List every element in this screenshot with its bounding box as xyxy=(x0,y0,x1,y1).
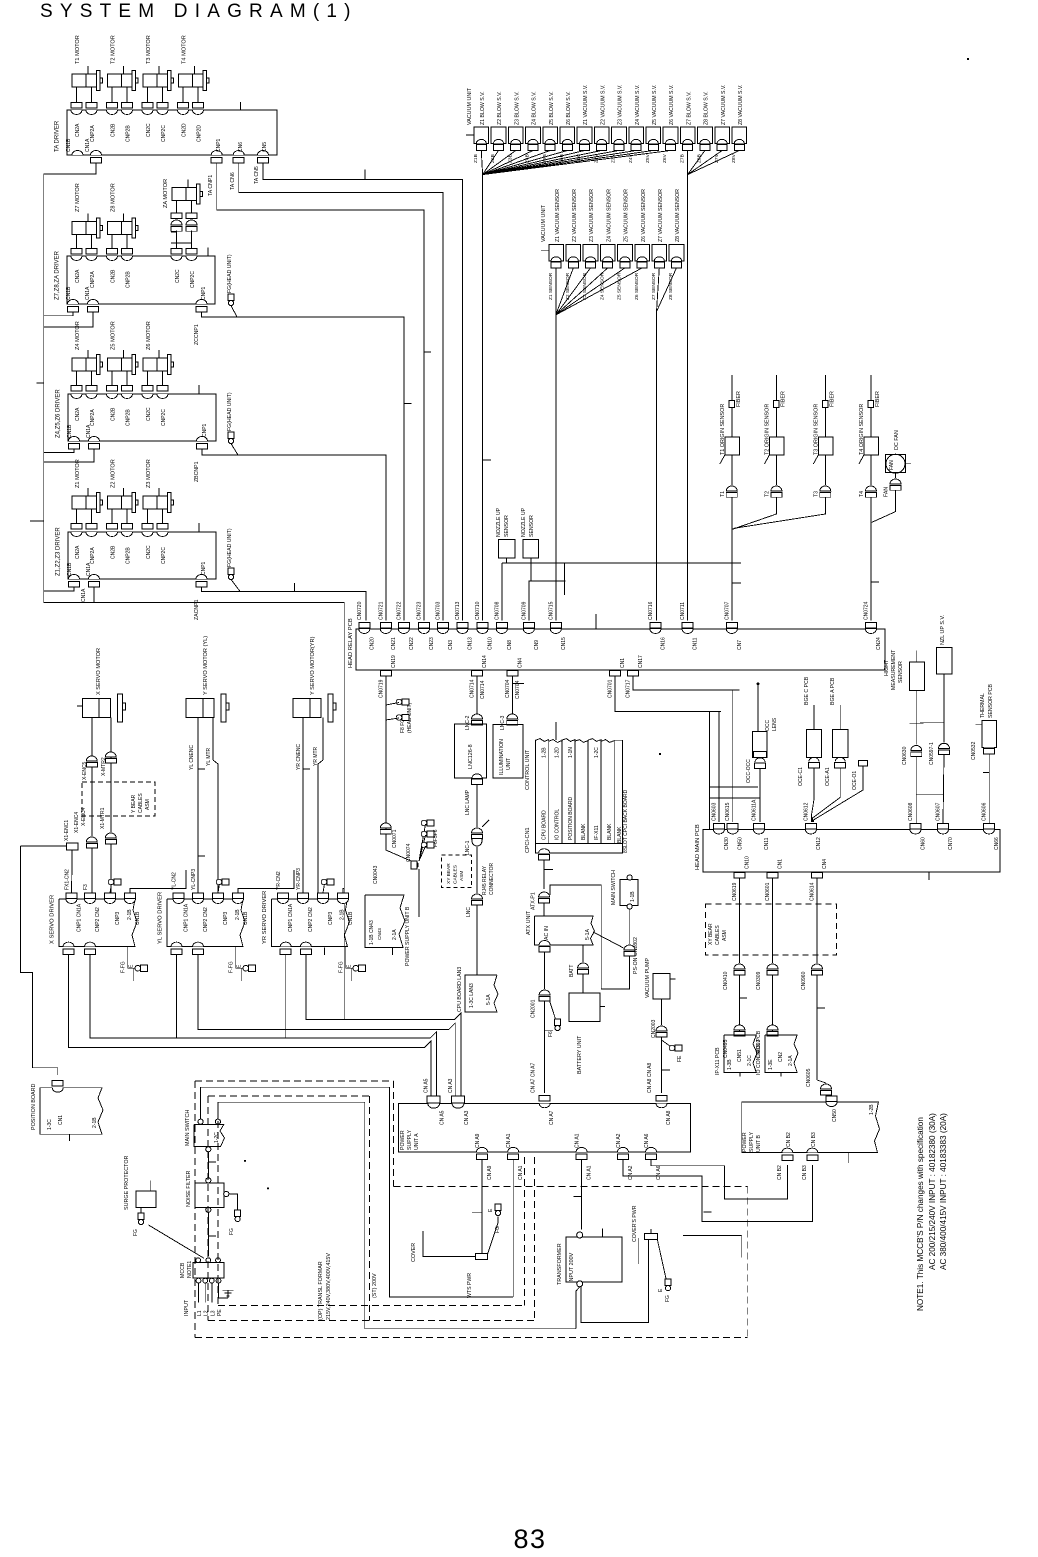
svg-text:CN0714: CN0714 xyxy=(470,679,476,698)
svg-text:CN2C: CN2C xyxy=(146,123,152,137)
stub on control unit top xyxy=(555,722,557,740)
svg-text:CN1A: CN1A xyxy=(85,138,91,152)
connector output on YL SERVO DRIVER bottom xyxy=(171,942,182,947)
svg-text:CNP1: CNP1 xyxy=(216,138,222,152)
connector CN0719 on HEAD RELAY PCB bottom xyxy=(380,670,391,675)
svg-text:CN0720: CN0720 xyxy=(357,601,363,620)
connector CN2D/CNP2D on TA DRIVER xyxy=(178,110,189,115)
svg-text:1-2C: 1-2C xyxy=(214,1132,220,1143)
connector CN0717 on HEAD RELAY PCB bottom xyxy=(628,670,639,675)
svg-text:CN20: CN20 xyxy=(369,637,375,650)
svg-text:MCCB: MCCB xyxy=(180,1262,186,1278)
svg-text:VACUUM UNIT: VACUUM UNIT xyxy=(467,87,473,125)
svg-text:CN0704: CN0704 xyxy=(505,679,511,698)
wire CN0714 to LNC-2 xyxy=(476,676,478,716)
svg-text:YL MTR: YL MTR xyxy=(206,747,212,766)
board slot 8SLOT CPCI BACK BOARD xyxy=(614,740,622,843)
connector CN A6 on PSU-A bottom xyxy=(646,1147,657,1152)
connector TA CNP1 xyxy=(211,151,222,155)
connector CN A2 on PSU-A bottom xyxy=(617,1147,628,1152)
wire bundle valve row cells 1-12 to CN0710 xyxy=(481,151,482,175)
wires Z78A driver to left bus xyxy=(44,312,73,316)
connector output on YR SERVO DRIVER bottom xyxy=(300,942,311,947)
connector CN0723 on HEAD RELAY PCB top xyxy=(419,623,430,629)
junction tick on CN0710 bundle wire xyxy=(483,459,492,461)
connector YR-CNP3 on YR SERVO DRIVER top xyxy=(298,893,309,899)
svg-text:CN A1: CN A1 xyxy=(506,1133,512,1148)
svg-text:CN0615: CN0615 xyxy=(725,802,731,821)
svg-text:1-3E: 1-3E xyxy=(768,1059,774,1070)
connector CN2B pair on Z7,Z8,ZA DRIVER xyxy=(107,256,118,261)
svg-text:CN13: CN13 xyxy=(468,637,474,650)
stray dots bottom area xyxy=(244,1160,246,1162)
svg-text:CN1: CN1 xyxy=(58,1115,64,1125)
svg-text:Z7 VACUUM S.V.: Z7 VACUUM S.V. xyxy=(721,85,727,125)
left vertical bus wire xyxy=(43,174,45,602)
junction tick on ZACNP1 wire xyxy=(294,583,296,592)
connector CN0714 on HEAD RELAY PCB bottom xyxy=(472,670,483,675)
connector ATX AC-IN bottom xyxy=(539,941,550,946)
svg-text:MAIN SWITCH: MAIN SWITCH xyxy=(185,1110,191,1146)
svg-text:2-1C: 2-1C xyxy=(747,1055,753,1066)
svg-text:CN2D: CN2D xyxy=(182,123,188,137)
stub on TA DRIVER top xyxy=(240,102,242,110)
stub below PSU-B small xyxy=(392,947,394,955)
svg-text:RJ45 RELAY: RJ45 RELAY xyxy=(482,865,488,895)
svg-text:IO CONTROL: IO CONTROL xyxy=(555,809,561,840)
svg-text:CNP2A: CNP2A xyxy=(90,271,96,288)
svg-text:Z4,Z5,Z6 DRIVER: Z4,Z5,Z6 DRIVER xyxy=(56,389,62,438)
connector ZCCNP1 xyxy=(196,300,207,305)
wire ZACNP1 to CN0720 xyxy=(202,587,367,621)
svg-text:Z7 SENSOR: Z7 SENSOR xyxy=(651,272,657,300)
wire CN0601 chain xyxy=(772,878,774,963)
svg-text:F-FG: F-FG xyxy=(339,961,345,973)
svg-text:XY BEAR: XY BEAR xyxy=(708,923,714,945)
svg-text:CN0605: CN0605 xyxy=(806,1068,812,1087)
power supply POWER SUPPLY UNIT A xyxy=(398,1103,690,1152)
svg-text:CN0597-1: CN0597-1 xyxy=(929,742,935,765)
svg-text:HEAD MAIN PCB: HEAD MAIN PCB xyxy=(695,824,701,870)
svg-text:FG: FG xyxy=(229,1228,235,1235)
svg-text:LNC-2: LNC-2 xyxy=(465,715,471,730)
stub on Z123 driver top xyxy=(198,523,200,532)
svg-text:CN0722: CN0722 xyxy=(396,601,402,620)
driver YL SERVO DRIVER xyxy=(167,899,245,947)
connector CN0603 on HEAD MAIN PCB top xyxy=(713,824,724,830)
svg-text:CN30: CN30 xyxy=(724,837,730,850)
wire transformer secondary loop xyxy=(581,1240,649,1323)
board slot BLANK xyxy=(601,740,614,844)
svg-text:CN0701: CN0701 xyxy=(608,679,614,698)
svg-text:CN A7 CN A7: CN A7 CN A7 xyxy=(531,1062,537,1093)
tick on vacuum pump wire xyxy=(662,1069,671,1071)
connector CN A7 arc on PSU-A top xyxy=(539,1103,550,1108)
svg-text:2-1B: 2-1B xyxy=(339,909,345,920)
connector CN0612 on HEAD MAIN PCB top xyxy=(805,824,816,830)
wire T2 joins T1 bundle xyxy=(733,506,777,529)
svg-text:CN1B: CN1B xyxy=(67,424,73,438)
svg-text:CN22: CN22 xyxy=(409,637,415,650)
svg-text:CN2C: CN2C xyxy=(146,545,152,559)
svg-text:CN10: CN10 xyxy=(744,856,750,869)
power supply POWER SUPPLY UNIT B xyxy=(742,1102,880,1153)
cable duct XY BEAR CABLES ASM small (dashed) xyxy=(442,855,472,888)
svg-text:X1-MTR1: X1-MTR1 xyxy=(100,807,106,829)
svg-text:T3 MOTOR: T3 MOTOR xyxy=(146,35,152,64)
wire CN A6 to CN B2 xyxy=(651,1160,787,1199)
wire T1 chain down to CN0707 xyxy=(731,506,733,621)
svg-text:CN1A: CN1A xyxy=(86,562,92,576)
svg-text:1-1B CN43: 1-1B CN43 xyxy=(369,920,375,945)
svg-text:AC 380/400/415V INPUT : 401833: AC 380/400/415V INPUT : 40183383 (20A) xyxy=(939,1113,948,1270)
stub below head main pcb right xyxy=(928,872,930,880)
svg-text:2-1B: 2-1B xyxy=(127,909,133,920)
wire CN0701 to CN0603 xyxy=(615,676,721,711)
svg-text:CABLES: CABLES xyxy=(138,793,144,813)
svg-text:CN11: CN11 xyxy=(764,837,770,850)
connector CN0716 on HEAD RELAY PCB top xyxy=(650,623,661,629)
svg-text:FIBER: FIBER xyxy=(875,391,881,407)
svg-text:FE: FE xyxy=(677,1055,683,1062)
svg-text:COVER: COVER xyxy=(411,1243,417,1262)
svg-text:T1 MOTOR: T1 MOTOR xyxy=(75,35,81,64)
connector on YR SERVO DRIVER top xyxy=(318,893,329,899)
svg-text:ATX-P1: ATX-P1 xyxy=(531,892,537,910)
svg-text:FG: FG xyxy=(133,1229,139,1236)
connector output on X SERVO DRIVER bottom xyxy=(63,942,74,947)
connector CN2B pair on Z4,Z5,Z6 DRIVER xyxy=(107,394,118,399)
board slot IO CONTROL xyxy=(549,740,562,844)
svg-text:LNC-3: LNC-3 xyxy=(500,715,506,730)
svg-text:BATTERY UNIT: BATTERY UNIT xyxy=(577,1035,583,1074)
wire bundle valve row cells 13-16 to CN0711 xyxy=(687,151,689,175)
connector ZACNP1 xyxy=(196,575,207,580)
svg-text:CN6: CN6 xyxy=(238,142,244,152)
svg-text:YL CNENC: YL CNENC xyxy=(189,745,195,770)
diag surge protector to MCCB xyxy=(149,1225,204,1258)
svg-text:CN2A: CN2A xyxy=(75,545,81,559)
plug TA CN1A output xyxy=(91,158,102,164)
wire TA DRIVER CN1A to left bus xyxy=(44,163,96,174)
connector CN A5 on PSU-A top xyxy=(427,1096,440,1103)
connector F3 on X SERVO DRIVER top xyxy=(85,893,96,899)
wire CN0719 chain down xyxy=(385,676,387,850)
svg-text:BLANK: BLANK xyxy=(607,823,613,840)
svg-text:1-2D: 1-2D xyxy=(555,747,561,758)
svg-text:Z4 MOTOR: Z4 MOTOR xyxy=(75,321,81,350)
svg-text:CONTROL UNIT: CONTROL UNIT xyxy=(525,749,531,790)
svg-text:CN0612: CN0612 xyxy=(803,802,809,821)
wire CN0614 chain xyxy=(816,878,818,963)
svg-text:(ST) 200V: (ST) 200V xyxy=(372,1273,378,1298)
connector CN2A/CNP2A on TA DRIVER xyxy=(71,110,82,115)
svg-text:CN0717: CN0717 xyxy=(626,679,632,698)
svg-text:1-2C: 1-2C xyxy=(594,747,600,758)
connector CN0708 on HEAD RELAY PCB top xyxy=(496,623,507,629)
junction tick on CN0723 wire xyxy=(424,351,431,353)
svg-text:Z7 MOTOR: Z7 MOTOR xyxy=(75,183,81,212)
svg-text:ILLUMINATION: ILLUMINATION xyxy=(499,739,505,775)
svg-text:Z3 VACUUM S.V.: Z3 VACUUM S.V. xyxy=(618,85,624,125)
ground earth symbol xyxy=(227,1290,229,1298)
svg-text:CN43: CN43 xyxy=(377,928,382,940)
connector on X SERVO DRIVER top xyxy=(105,893,116,899)
svg-text:CN0713: CN0713 xyxy=(455,601,461,620)
svg-text:L2: L2 xyxy=(204,1310,210,1316)
tick near CN B route xyxy=(703,1211,711,1213)
svg-text:CNP2C: CNP2C xyxy=(161,409,167,426)
connector CN0721 on HEAD RELAY PCB top xyxy=(380,623,391,629)
svg-text:CN0714: CN0714 xyxy=(480,680,486,699)
svg-text:1-2B: 1-2B xyxy=(869,1104,875,1115)
svg-text:CN0606: CN0606 xyxy=(982,802,988,821)
svg-text:X SERVO DRIVER: X SERVO DRIVER xyxy=(50,895,56,944)
svg-text:MEASUREMENT: MEASUREMENT xyxy=(891,649,897,690)
svg-text:Y SERVO MOTOR (YL): Y SERVO MOTOR (YL) xyxy=(203,636,209,695)
svg-text:OCE-A1: OCE-A1 xyxy=(825,767,831,786)
svg-text:TA CNP1: TA CNP1 xyxy=(208,175,214,196)
svg-text:FAN: FAN xyxy=(884,487,890,497)
svg-text:CN1B: CN1B xyxy=(66,286,72,300)
svg-text:CN19: CN19 xyxy=(391,655,397,668)
stub on Z78A driver top xyxy=(207,248,209,257)
svg-text:CN0960: CN0960 xyxy=(801,971,807,990)
svg-text:CNP1 CN1A: CNP1 CN1A xyxy=(184,903,190,932)
svg-text:CN8: CN8 xyxy=(507,640,513,650)
connector CN0071 pair on CN0719 chain xyxy=(380,823,391,828)
svg-text:Z1 VACUUM SENSOR: Z1 VACUUM SENSOR xyxy=(555,189,561,242)
connector CN2C pair on Z4,Z5,Z6 DRIVER xyxy=(142,394,153,399)
connector LNC LAMP xyxy=(472,774,482,778)
svg-text:(OP) TRANSL FORMAR: (OP) TRANSL FORMAR xyxy=(318,1261,324,1320)
svg-text:CN A5: CN A5 xyxy=(424,1078,430,1093)
fuse F6 above YL driver xyxy=(216,879,222,885)
svg-text:ASM: ASM xyxy=(459,871,465,881)
svg-text:YR-CN2: YR-CN2 xyxy=(276,871,282,890)
svg-text:CN0711: CN0711 xyxy=(680,602,686,620)
svg-text:Z5 BLOW S.V.: Z5 BLOW S.V. xyxy=(549,91,555,125)
wire CN0619 chain xyxy=(738,878,740,963)
svg-text:2-1A: 2-1A xyxy=(788,1055,794,1066)
svg-text:CNP2D: CNP2D xyxy=(197,125,203,142)
svg-text:CN15: CN15 xyxy=(561,637,567,650)
svg-text:X SERVO MOTOR: X SERVO MOTOR xyxy=(96,648,102,695)
svg-text:ATX UNIT: ATX UNIT xyxy=(526,910,532,935)
connector TA CN5 xyxy=(258,151,269,155)
svg-text:CNP2C: CNP2C xyxy=(190,271,196,288)
svg-text:FIBER: FIBER xyxy=(829,391,835,407)
connector ZBCNP1 xyxy=(197,437,208,442)
connector CN0606 on HEAD MAIN PCB top xyxy=(984,824,995,830)
svg-text:YR CNENC: YR CNENC xyxy=(296,743,302,770)
svg-text:CN A3: CN A3 xyxy=(448,1078,454,1093)
connector CN2A pair on Z7,Z8,ZA DRIVER xyxy=(71,256,82,261)
svg-text:CN0709: CN0709 xyxy=(521,601,527,620)
connector FX1-CN2 on X SERVO DRIVER top xyxy=(66,893,77,899)
svg-text:CN0710: CN0710 xyxy=(475,601,481,620)
wires Z123 driver to left bus xyxy=(44,587,74,591)
junction ticks on T1/T4 chains xyxy=(732,562,741,564)
svg-text:CN2B: CN2B xyxy=(111,269,117,283)
svg-text:SENSOR: SENSOR xyxy=(504,515,510,537)
svg-text:UNIT B: UNIT B xyxy=(756,1135,762,1152)
svg-text:Z2 BLOW S.V.: Z2 BLOW S.V. xyxy=(497,91,503,125)
svg-text:Z1 SENSOR: Z1 SENSOR xyxy=(548,272,554,300)
connector CN0614 on HEAD MAIN PCB bottom xyxy=(812,872,823,877)
svg-text:CNP1: CNP1 xyxy=(201,561,207,575)
svg-text:CN51: CN51 xyxy=(737,1049,743,1062)
svg-text:CN2: CN2 xyxy=(778,1052,784,1062)
cable duct XY BEAR CABLES ASM (dashed) xyxy=(706,904,837,955)
svg-text:BGE A PCB: BGE A PCB xyxy=(830,677,836,705)
svg-text:215V,240V,380V,400V,415V: 215V,240V,380V,400V,415V xyxy=(326,1253,332,1320)
dashed enclosure (OP) TRANSFORMER outer xyxy=(194,1081,196,1337)
svg-text:POWER SUPPLY UNIT B: POWER SUPPLY UNIT B xyxy=(405,906,411,966)
svg-text:Z3 BLOW S.V.: Z3 BLOW S.V. xyxy=(514,91,520,125)
svg-text:ZBCNP1: ZBCNP1 xyxy=(194,461,200,482)
svg-text:Z4V: Z4V xyxy=(628,153,634,163)
svg-text:Z7 BLOW S.V.: Z7 BLOW S.V. xyxy=(686,91,692,125)
svg-text:IP-X11 PCB: IP-X11 PCB xyxy=(715,1047,721,1075)
svg-text:CNP2 CN2: CNP2 CN2 xyxy=(95,907,101,932)
svg-text:TA DRIVER: TA DRIVER xyxy=(55,120,61,152)
svg-text:BLANK: BLANK xyxy=(581,823,587,840)
svg-text:CPU BOARD LAN3: CPU BOARD LAN3 xyxy=(457,967,463,1012)
svg-text:INPUT 200V: INPUT 200V xyxy=(569,1252,575,1283)
connector YR-CN2 on YR SERVO DRIVER top xyxy=(278,893,289,899)
svg-text:Z5 MOTOR: Z5 MOTOR xyxy=(111,321,117,350)
connector WTS PWR xyxy=(476,1254,488,1260)
driver U-TA TA DRIVER xyxy=(67,110,277,155)
svg-text:CN60: CN60 xyxy=(921,837,927,850)
svg-text:LNC LAMP: LNC LAMP xyxy=(465,789,471,815)
driver U-Z78A Z7,Z8,ZA DRIVER xyxy=(67,256,215,304)
svg-text:F6: F6 xyxy=(548,1031,554,1037)
fuse FG on noise filter xyxy=(229,1194,238,1210)
svg-text:Z6 SENSOR: Z6 SENSOR xyxy=(634,272,640,300)
dashed enclosure middle xyxy=(207,1096,209,1320)
connector CN0720 on HEAD RELAY PCB top xyxy=(359,623,370,629)
svg-text:AC IN: AC IN xyxy=(544,926,550,940)
svg-text:CN A1: CN A1 xyxy=(518,1165,524,1180)
wire CN0704 to LNC-3 xyxy=(511,676,513,716)
svg-text:VACUUM UNIT: VACUUM UNIT xyxy=(541,204,547,242)
svg-text:CN11: CN11 xyxy=(693,637,699,650)
svg-text:Z8V: Z8V xyxy=(731,153,737,163)
svg-text:FG(HEAD UNIT): FG(HEAD UNIT) xyxy=(227,528,233,567)
svg-text:Z1 MOTOR: Z1 MOTOR xyxy=(75,459,81,488)
svg-text:Z1 VACUUM S.V.: Z1 VACUUM S.V. xyxy=(583,85,589,125)
svg-text:CN B2: CN B2 xyxy=(777,1165,783,1180)
unit BATTERY UNIT xyxy=(569,993,600,1021)
wire bundle sensor cells 7-8 to CN0716 xyxy=(657,268,660,312)
svg-text:CN0630: CN0630 xyxy=(902,746,908,765)
svg-text:SYSTEM DIAGRAM(1): SYSTEM DIAGRAM(1) xyxy=(40,1,358,22)
svg-text:CN0703: CN0703 xyxy=(435,601,441,620)
svg-text:UNIT A: UNIT A xyxy=(414,1133,420,1150)
svg-text:Z8 MOTOR: Z8 MOTOR xyxy=(111,183,117,212)
connector YL-CN2 on YL SERVO DRIVER top xyxy=(173,893,184,899)
connector CN0724 on HEAD RELAY PCB top xyxy=(865,623,876,629)
svg-text:TA CN6: TA CN6 xyxy=(230,172,236,190)
svg-text:CN0071: CN0071 xyxy=(392,829,398,848)
connector CN1B/CN1A bottom of Z123 driver xyxy=(69,575,80,580)
connector CN2C pair for ZA on driver xyxy=(171,256,182,261)
svg-text:F-FG: F-FG xyxy=(121,961,127,973)
svg-text:CN B3: CN B3 xyxy=(811,1132,817,1147)
svg-text:NOISE FILTER: NOISE FILTER xyxy=(186,1170,192,1207)
connector CN0722 on HEAD RELAY PCB top xyxy=(398,623,409,629)
svg-text:83: 83 xyxy=(513,1524,546,1554)
lens OCC LENS chain xyxy=(757,682,760,685)
wire transformer bottom return xyxy=(576,1287,580,1329)
diag ATX to PS-ON xyxy=(593,932,624,948)
svg-text:Z3 MOTOR: Z3 MOTOR xyxy=(146,459,152,488)
svg-text:Z1B: Z1B xyxy=(473,154,479,163)
svg-text:XY BEAR: XY BEAR xyxy=(446,863,452,884)
cross links near CCD chain xyxy=(709,711,711,829)
svg-text:CN1B: CN1B xyxy=(348,911,354,925)
svg-text:CN16: CN16 xyxy=(661,637,667,650)
driver U-Z456 Z4,Z5,Z6 DRIVER xyxy=(68,394,216,441)
svg-text:CN0603: CN0603 xyxy=(711,802,717,821)
junction tick on CN0722 wire xyxy=(404,403,412,405)
wire ZCCNP1 to CN0722 xyxy=(202,312,404,621)
svg-text:CN4: CN4 xyxy=(822,859,828,869)
svg-text:CN17: CN17 xyxy=(638,655,644,668)
fuse F6 above X driver xyxy=(108,879,114,885)
svg-text:CN0614: CN0614 xyxy=(810,882,816,901)
connector CN0709 on HEAD RELAY PCB top xyxy=(523,623,534,629)
wire main switch phase 1 loop xyxy=(201,1087,514,1297)
bus branch ticks xyxy=(37,382,44,384)
svg-text:Z1 BLOW S.V.: Z1 BLOW S.V. xyxy=(480,91,486,125)
svg-text:ASM: ASM xyxy=(722,930,728,941)
wires servo drivers down to PSU-A CN A5/CN A3 xyxy=(69,955,431,1096)
svg-text:Z3 VACUUM SENSOR: Z3 VACUUM SENSOR xyxy=(589,189,595,242)
svg-text:Z8 VACUUM S.V.: Z8 VACUUM S.V. xyxy=(738,85,744,125)
board slot POSITION BOARD xyxy=(562,739,575,844)
connector CN2C/CNP2C on TA DRIVER xyxy=(142,110,153,115)
pcb HEAD RELAY PCB xyxy=(356,629,885,670)
tick below YR driver xyxy=(323,947,325,955)
svg-text:T2: T2 xyxy=(764,491,770,497)
connector CN1B/CN1A bottom of Z456 driver xyxy=(69,437,80,442)
svg-text:CN0724: CN0724 xyxy=(863,601,869,620)
svg-text:CN14: CN14 xyxy=(482,655,488,668)
connector YL-CNP3 on YL SERVO DRIVER top xyxy=(193,893,204,899)
svg-text:CN2B: CN2B xyxy=(111,407,117,421)
svg-text:TRANSFORMER: TRANSFORMER xyxy=(557,1243,563,1285)
svg-text:LNC: LNC xyxy=(466,907,472,917)
driver X SERVO DRIVER xyxy=(59,899,137,947)
svg-text:F-FG: F-FG xyxy=(229,961,235,973)
wire T3 joins T1 bundle xyxy=(733,506,825,528)
connector on YL SERVO DRIVER top xyxy=(213,893,224,899)
svg-text:CN0410: CN0410 xyxy=(723,971,729,990)
svg-text:MAIN SWITCH: MAIN SWITCH xyxy=(611,870,617,905)
connector CN0619 on HEAD MAIN PCB bottom xyxy=(734,872,745,877)
svg-text:CONNECTOR: CONNECTOR xyxy=(489,862,495,895)
board slot CPU BOARD xyxy=(536,739,549,844)
svg-text:LENS: LENS xyxy=(772,717,778,731)
junction tick on TA CN5 wire xyxy=(364,169,366,179)
svg-text:FG: FG xyxy=(665,1295,671,1302)
svg-text:COVER'S PWR: COVER'S PWR xyxy=(632,1205,638,1242)
svg-text:SENSOR: SENSOR xyxy=(898,661,904,683)
svg-text:YL-CNP3: YL-CNP3 xyxy=(191,869,197,890)
